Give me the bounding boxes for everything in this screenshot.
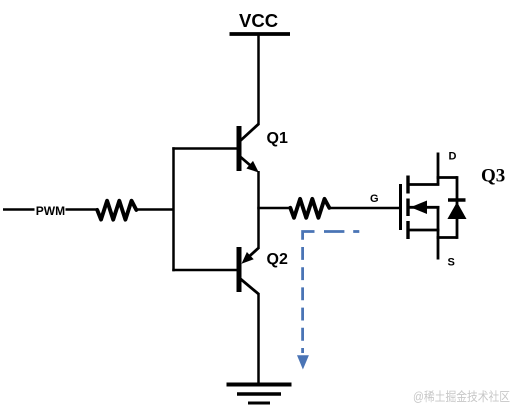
transistor Q3 (N-MOSFET) [401, 153, 440, 260]
gate bar [399, 184, 402, 230]
vertical dashes [301, 247, 304, 353]
wire left vertical (base bus) [172, 147, 175, 271]
channel segment middle [406, 199, 409, 217]
wire Q2 collector to ground [257, 293, 260, 383]
drain lead [437, 153, 440, 185]
wire Q1 base [172, 147, 237, 150]
wire output node to gate resistor [257, 207, 290, 210]
svg-text:VCC: VCC [239, 10, 278, 31]
transistor Q2 (PNP) [239, 247, 259, 294]
Q1 base bar [237, 126, 242, 171]
Q2 base bar [237, 247, 242, 292]
diode vertical [456, 176, 459, 239]
arrowhead [297, 355, 309, 369]
source lead [437, 206, 440, 260]
body arrow stub [408, 206, 439, 209]
Q2 collector diagonal [240, 279, 259, 295]
source stub [408, 229, 439, 232]
diode top branch [437, 176, 457, 179]
channel segment bottom [406, 221, 409, 239]
wire resistor to gate [329, 207, 400, 210]
wire output node vertical (Q1 emitter to Q2 emitter) [257, 171, 260, 249]
Q2 emitter diagonal with arrow [248, 248, 259, 258]
wire Q2 base [172, 269, 237, 272]
wire VCC to Q1 collector [257, 34, 260, 125]
drain stub [408, 183, 439, 186]
transistor Q1 (NPN) [239, 124, 259, 173]
wire PWM input [3, 208, 97, 211]
channel segment top [406, 176, 409, 194]
corner dash [303, 232, 315, 240]
diode bottom branch [437, 236, 457, 239]
svg-text:PWM: PWM [36, 204, 65, 218]
wire resistor to base bus [137, 208, 175, 211]
svg-text:Q3: Q3 [481, 166, 505, 187]
svg-text:@稀土掘金技术社区: @稀土掘金技术社区 [413, 389, 510, 404]
resistor R1 (PWM series) [97, 201, 136, 220]
diode cathode bar [448, 198, 466, 201]
svg-text:S: S [448, 257, 455, 269]
Q1 collector diagonal [240, 124, 259, 141]
svg-text:D: D [449, 151, 457, 163]
diode triangle [447, 202, 466, 219]
dashed current path (blue) [297, 232, 359, 370]
horizontal dashes [324, 230, 344, 233]
ground [227, 385, 292, 404]
svg-text:Q1: Q1 [267, 130, 288, 147]
svg-text:G: G [370, 193, 379, 205]
body diode D1 [437, 176, 467, 239]
VCC power rail bar [230, 32, 291, 36]
Q1 emitter diagonal with arrow [240, 157, 251, 167]
resistor R2 (gate series) [290, 199, 329, 218]
svg-text:Q2: Q2 [267, 251, 288, 268]
